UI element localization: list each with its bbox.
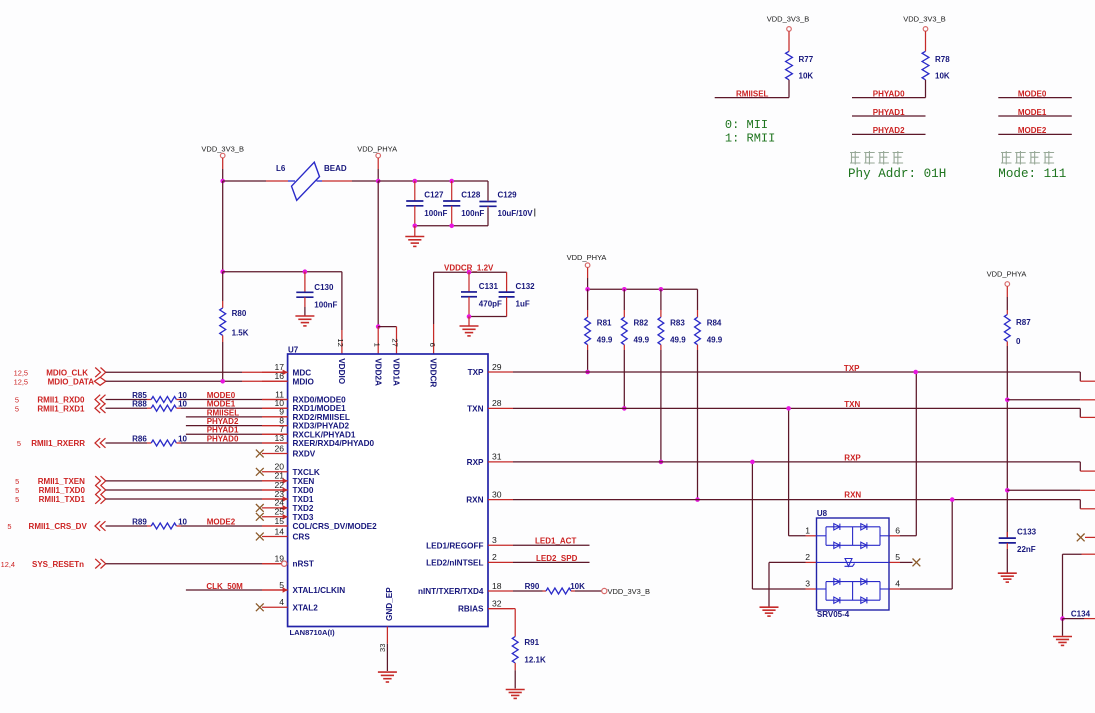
svg-text:RXD1/MODE1: RXD1/MODE1 — [293, 404, 347, 413]
port RMII1_CRS_DV (sheet 5) — [7, 521, 105, 531]
capacitor C134 (off-page) label/wire — [1063, 609, 1095, 618]
wire RMII1_TXEN to pin 21 — [106, 480, 288, 482]
svg-text:12: 12 — [336, 338, 345, 346]
annotation internal pullup / Mode: 111 — [998, 151, 1066, 181]
ground (C130) — [295, 307, 314, 326]
svg-text:RXDV: RXDV — [293, 450, 316, 459]
svg-text:RMII1_RXD0: RMII1_RXD0 — [37, 396, 85, 405]
node C131 bottom — [467, 314, 472, 319]
svg-text:RXER/RXD4/PHYAD0: RXER/RXD4/PHYAD0 — [293, 439, 375, 448]
wire VDD_PHYA vertical to VDD2A/VDD1A — [377, 181, 379, 327]
wire VDD_3V3_B vertical down — [222, 181, 224, 272]
svg-text:49.9: 49.9 — [707, 336, 723, 345]
svg-text:XTAL2: XTAL2 — [293, 603, 319, 612]
net label MODE0 / wire to pin 11 — [181, 391, 288, 400]
svg-text:30: 30 — [492, 489, 502, 499]
svg-text:BEAD: BEAD — [324, 164, 347, 173]
net label MODE1 / wire to pin 10 — [181, 400, 288, 409]
pin 2 LED2/nINTSEL (right) — [426, 552, 513, 567]
node VDD_3V3_B / C130 rail — [220, 269, 225, 274]
node C127 top — [413, 179, 418, 184]
diodes U8 row 2 — [817, 536, 890, 549]
svg-text:RXD0/MODE0: RXD0/MODE0 — [293, 396, 347, 405]
pin 26 RXDV (left) — [256, 443, 316, 458]
wire U8 pin 4 to RXN — [889, 500, 952, 589]
svg-text:5: 5 — [17, 439, 21, 448]
node R81 to TXP — [585, 370, 590, 375]
wire VDD_PHYA termination bus — [588, 288, 698, 290]
wire RBIAS to R91 — [488, 609, 515, 637]
resistor R80 1.5K (MDIO pull-up) — [220, 272, 249, 382]
inductor L6 (ferrite BEAD) — [276, 162, 347, 200]
svg-text:MDC: MDC — [293, 368, 312, 377]
node TXN / U8 — [786, 406, 791, 411]
capacitor C129 10uF/10V — [479, 181, 534, 226]
node RXN / U8 — [950, 497, 955, 502]
svg-text:10: 10 — [178, 391, 187, 400]
svg-text:1uF: 1uF — [516, 299, 530, 308]
net label MODE1 / wire stub — [998, 108, 1072, 117]
svg-text:1: 1 — [372, 343, 381, 347]
svg-text:R88: R88 — [132, 400, 147, 409]
svg-text:Mode: 111: Mode: 111 — [998, 167, 1066, 181]
port RMII1_RXD1 (sheet 5) — [15, 403, 106, 413]
svg-text:U8: U8 — [817, 509, 828, 518]
net label RMIISEL / wire to pin 9 — [186, 408, 288, 417]
node C128 bottom — [449, 224, 454, 229]
svg-text:R90: R90 — [525, 582, 540, 591]
svg-text:5: 5 — [15, 477, 19, 486]
svg-text:26: 26 — [274, 443, 284, 453]
svg-text:VDD2A: VDD2A — [373, 358, 382, 386]
svg-text:RXN: RXN — [844, 490, 861, 499]
svg-text:VDD_3V3_B: VDD_3V3_B — [903, 15, 946, 24]
wire RMII1_CRS_DV to R89 — [106, 525, 152, 527]
ground (C133) — [998, 573, 1017, 582]
diodes U8 row 1 — [826, 524, 880, 546]
port RMII1_RXERR (sheet 5) — [17, 438, 106, 448]
pin 28 TXN (right) — [467, 398, 513, 413]
svg-text:100nF: 100nF — [314, 301, 337, 310]
svg-text:XTAL1/CLKIN: XTAL1/CLKIN — [293, 586, 346, 595]
svg-text:1: 1 — [805, 526, 810, 536]
pin 4 XTAL2 (left) — [256, 597, 318, 612]
wire C131/C132 bottom bus — [469, 316, 507, 318]
node TX center tap — [1005, 398, 1010, 403]
svg-text:RMII1_RXERR: RMII1_RXERR — [31, 439, 85, 448]
svg-text:MODE2: MODE2 — [207, 517, 236, 526]
node bus R81 — [585, 287, 590, 292]
svg-text:RMII1_TXEN: RMII1_TXEN — [38, 477, 85, 486]
svg-text:RMII1_RXD1: RMII1_RXD1 — [37, 404, 85, 413]
capacitor C131 470pF — [461, 272, 502, 316]
svg-text:3: 3 — [805, 579, 810, 589]
svg-text:TXEN: TXEN — [293, 477, 315, 486]
svg-text:5: 5 — [7, 522, 11, 531]
node RX center tap — [1005, 488, 1010, 493]
node C134 — [1060, 616, 1065, 621]
ground (C134) — [1053, 619, 1072, 646]
svg-text:C127: C127 — [424, 190, 444, 199]
svg-text:RMIISEL: RMIISEL — [207, 408, 240, 417]
power terminal VDD_3V3_B (R90) — [602, 587, 650, 596]
svg-text:TXP: TXP — [468, 368, 484, 377]
svg-text:49.9: 49.9 — [597, 336, 613, 345]
svg-text:28: 28 — [492, 398, 502, 408]
net label RMIISEL / wire stub — [715, 89, 789, 98]
svg-text:PHYAD1: PHYAD1 — [207, 426, 239, 435]
wire VDD_3V3_B rail to L6 — [223, 180, 288, 182]
node C131 top — [467, 270, 472, 275]
pin stub VDDCR pin 6 — [433, 272, 435, 354]
svg-text:RMII1_TXD1: RMII1_TXD1 — [39, 495, 86, 504]
pin 3 LED1/REGOFF (right) — [426, 535, 513, 550]
svg-text:12,4: 12,4 — [1, 560, 15, 569]
pin 27 VDD1A (top) — [391, 338, 401, 386]
svg-text:0: MII: 0: MII — [725, 118, 768, 132]
svg-text:12.1K: 12.1K — [524, 656, 546, 665]
svg-text:49.9: 49.9 — [670, 336, 686, 345]
svg-text:VDD_PHYA: VDD_PHYA — [987, 269, 1027, 278]
svg-text:C128: C128 — [461, 190, 481, 199]
svg-text:12,5: 12,5 — [14, 368, 28, 377]
svg-text:VDDIO: VDDIO — [337, 358, 346, 385]
net label PHYAD0 / wire stub — [852, 89, 926, 98]
pin 1 VDD2A (top) — [372, 343, 382, 386]
wire TXP net — [513, 364, 1095, 381]
svg-text:VDDCR: VDDCR — [429, 358, 438, 387]
svg-text:RXP: RXP — [844, 453, 861, 462]
svg-text:TXD1: TXD1 — [293, 495, 314, 504]
no-connect U8 pin 5 — [889, 559, 920, 567]
svg-text:RMII1_TXD0: RMII1_TXD0 — [39, 486, 86, 495]
pin 7 RXCLK/PHYAD1 (left) — [262, 424, 356, 439]
ground (GND_EP pin 33) — [378, 672, 397, 682]
svg-text:15: 15 — [274, 516, 284, 526]
port SYS_RESETn (sheet 12,4) — [1, 559, 106, 569]
svg-text:14: 14 — [274, 526, 284, 536]
svg-text:R91: R91 — [524, 638, 539, 647]
svg-text:RXCLK/PHYAD1: RXCLK/PHYAD1 — [293, 430, 356, 439]
svg-text:470pF: 470pF — [479, 299, 502, 308]
svg-text:RMII1_CRS_DV: RMII1_CRS_DV — [29, 522, 88, 531]
node R83 to RXP — [659, 460, 664, 465]
port RMII1_TXD1 (sheet 5) — [15, 494, 106, 504]
wire R87 center-tap vertical — [1006, 346, 1008, 538]
svg-text:100nF: 100nF — [424, 209, 447, 218]
power symbol VDD_PHYA (right) — [987, 269, 1027, 310]
svg-text:TXD2: TXD2 — [293, 504, 314, 513]
svg-text:SRV05-4: SRV05-4 — [817, 610, 850, 619]
svg-text:22nF: 22nF — [1017, 545, 1036, 554]
capacitor C127 100nF — [406, 181, 447, 226]
pin 14 CRS (left) — [256, 526, 310, 541]
svg-text:LED1_ACT: LED1_ACT — [535, 537, 576, 546]
resistor R85 10 — [132, 391, 187, 403]
svg-text:TXN: TXN — [844, 400, 860, 409]
wire RXN net — [513, 490, 1095, 508]
node MDIO_DATA / R80 — [220, 379, 225, 384]
zener diode U8 (TVS) — [817, 559, 890, 567]
pin 29 TXP (right) — [468, 362, 513, 377]
pin 9 RXD2/RMIISEL (left) — [262, 407, 350, 422]
pin 8 RXD3/PHYAD2 (left) — [262, 415, 350, 430]
svg-text:VDD1A: VDD1A — [392, 358, 401, 386]
svg-text:10: 10 — [178, 517, 187, 526]
resistor R91 12.1K — [512, 637, 546, 689]
svg-text:49.9: 49.9 — [634, 336, 650, 345]
resistor R78 10K — [922, 51, 950, 97]
pin stub VDD1A pin 27 — [378, 327, 396, 354]
svg-text:nINT/TXER/TXD4: nINT/TXER/TXD4 — [418, 587, 484, 596]
pin 13 RXER/RXD4/PHYAD0 (left) — [262, 433, 375, 448]
svg-text:TXD0: TXD0 — [293, 486, 314, 495]
wire VDD_PHYA rail to decoupling caps — [378, 180, 488, 182]
resistor R86 10 — [132, 434, 187, 446]
no-connect stub (right edge) — [1077, 534, 1095, 542]
svg-text:VDD_3V3_B: VDD_3V3_B — [767, 15, 810, 24]
wire RMII1_RXD1 to R88 — [106, 407, 152, 409]
svg-text:C130: C130 — [314, 283, 334, 292]
svg-text:5: 5 — [15, 495, 19, 504]
net label LED1_ACT / wire — [513, 537, 590, 546]
svg-text:SYS_RESETn: SYS_RESETn — [32, 560, 84, 569]
svg-text:33: 33 — [378, 644, 387, 652]
wire RMII1_TXD0 to pin 22 — [106, 489, 288, 491]
svg-text:31: 31 — [492, 452, 502, 462]
resistor R87 0 — [1004, 310, 1031, 346]
wire SYS_RESETn to pin 19 — [106, 563, 282, 565]
pin 18 nINT/TXER/TXD4 (right) — [418, 581, 513, 596]
svg-text:29: 29 — [492, 362, 502, 372]
pin 33 GND_EP (bottom) — [378, 587, 394, 671]
svg-text:6: 6 — [428, 343, 437, 347]
svg-text:RXD3/PHYAD2: RXD3/PHYAD2 — [293, 422, 350, 431]
svg-text:CRS: CRS — [293, 533, 311, 542]
ground (C131/C132) — [460, 317, 479, 336]
svg-text:L6: L6 — [276, 164, 286, 173]
resistor R77 10K — [786, 51, 814, 97]
diodes U8 row 4 — [817, 589, 890, 603]
node VDD_3V3_B junction — [220, 179, 225, 184]
power symbol VDD_3V3_B (top left) — [201, 145, 244, 181]
node C127 bottom — [413, 224, 418, 229]
svg-text:PHYAD2: PHYAD2 — [207, 417, 239, 426]
svg-text:TXP: TXP — [844, 364, 860, 373]
svg-text:PHYAD0: PHYAD0 — [207, 434, 239, 443]
node C130 top — [303, 269, 308, 274]
svg-text:Phy Addr: 01H: Phy Addr: 01H — [848, 167, 946, 181]
pin 22 TXD0 (left) — [262, 480, 314, 495]
svg-text:R87: R87 — [1016, 318, 1031, 327]
wire VDDCR rail — [434, 271, 507, 273]
svg-text:RXN: RXN — [466, 496, 483, 505]
svg-text:VDD_PHYA: VDD_PHYA — [567, 253, 607, 262]
svg-text:32: 32 — [492, 598, 502, 608]
net label PHYAD2 / wire to pin 8 — [186, 417, 288, 426]
wire RXP net — [513, 453, 1095, 471]
resistor R84 49.9 — [695, 289, 723, 499]
svg-text:R82: R82 — [634, 318, 649, 327]
resistor R81 49.9 — [585, 289, 613, 372]
resistor R88 10 — [132, 400, 187, 412]
wire L6 to VDD_PHYA rail — [322, 180, 378, 182]
net label PHYAD1 / wire stub — [852, 108, 926, 117]
wire decoupling caps bottom bus — [415, 225, 488, 227]
wire TXN net — [513, 400, 1095, 418]
annotation internal pulldown / Phy Addr: 01H — [848, 151, 946, 181]
svg-text:C132: C132 — [516, 282, 536, 291]
svg-text:6: 6 — [895, 526, 900, 536]
svg-text:MDIO_CLK: MDIO_CLK — [46, 368, 88, 377]
annotation 0: MII / 1: RMII — [725, 118, 775, 145]
svg-text:RBIAS: RBIAS — [458, 605, 484, 614]
node bus R82 — [622, 287, 627, 292]
power symbol VDD_3V3_B (R77) — [767, 15, 810, 52]
pin 17 MDC (left) — [262, 362, 311, 377]
net label VDDCR_1.2V — [444, 263, 494, 272]
svg-text:VDD_PHYA: VDD_PHYA — [357, 145, 397, 154]
svg-text:RXD2/RMIISEL: RXD2/RMIISEL — [293, 413, 350, 422]
svg-text:10uF/10V: 10uF/10V — [498, 209, 534, 218]
svg-text:TXN: TXN — [467, 404, 483, 413]
resistor R89 10 — [132, 517, 187, 529]
node RXP / U8 — [750, 460, 755, 465]
svg-text:C133: C133 — [1017, 528, 1037, 537]
svg-text:5: 5 — [15, 396, 19, 405]
svg-text:R77: R77 — [799, 55, 814, 64]
capacitor C132 1uF — [499, 272, 536, 316]
ground (U8 pin 2) — [760, 607, 779, 616]
svg-text:10K: 10K — [799, 72, 814, 81]
capacitor C130 100nF — [296, 272, 337, 310]
ground (R91) — [506, 690, 525, 699]
pin 24 TXD2 (left) — [256, 498, 314, 513]
pin 10 RXD1/MODE1 (left) — [262, 398, 346, 413]
resistor R83 49.9 — [658, 289, 686, 462]
pin stub VDD2A pin 1 — [377, 327, 379, 354]
power symbol VDD_PHYA (top) — [357, 145, 397, 181]
svg-text:R89: R89 — [132, 517, 147, 526]
net label PHYAD0 / wire to pin 13 — [181, 434, 288, 443]
net label MODE2 / wire to pin 15 — [181, 517, 288, 526]
svg-text:R84: R84 — [707, 318, 722, 327]
svg-text:LAN8710A(I): LAN8710A(I) — [290, 628, 336, 637]
pin 15 COL/CRS_DV/MODE2 (left) — [262, 516, 377, 531]
wire rail to VDDIO pin 12 — [223, 272, 342, 354]
resistor R90 10K — [513, 582, 602, 594]
svg-text:MDIO: MDIO — [293, 377, 315, 386]
svg-text:2: 2 — [805, 552, 810, 562]
svg-text:R83: R83 — [670, 318, 685, 327]
transistor-array U8 SRV05-4 body — [817, 509, 890, 619]
port RMII1_RXD0 (sheet 5) — [15, 395, 106, 405]
resistor R82 49.9 — [621, 289, 649, 408]
node R84 to RXN — [695, 497, 700, 502]
wire shield stub from edge — [1063, 554, 1095, 618]
svg-text:U7: U7 — [288, 345, 299, 354]
svg-text:GND_EP: GND_EP — [385, 587, 394, 621]
svg-text:5: 5 — [15, 404, 19, 413]
net label MODE2 / wire stub — [998, 126, 1072, 135]
node VDD_PHYA junction — [376, 179, 381, 184]
svg-text:LED2_SPD: LED2_SPD — [536, 554, 578, 563]
pin 25 TXD3 (left) — [256, 507, 314, 522]
port RMII1_TXD0 (sheet 5) — [15, 485, 106, 495]
svg-text:0: 0 — [1016, 337, 1021, 346]
net label MODE0 / wire stub — [998, 89, 1072, 98]
svg-text:COL/CRS_DV/MODE2: COL/CRS_DV/MODE2 — [293, 522, 378, 531]
svg-text:1.5K: 1.5K — [232, 328, 249, 337]
pin 16 MDIO (left) — [262, 371, 315, 386]
pin 5 XTAL1/CLKIN (left) — [262, 580, 345, 595]
wire U8 pin 2 to ground — [769, 562, 817, 606]
wire RMII1_RXD0 to R85 — [106, 399, 152, 401]
svg-text:10: 10 — [178, 434, 187, 443]
diodes U8 row 3 — [826, 578, 880, 600]
svg-text:LED1/REGOFF: LED1/REGOFF — [426, 541, 483, 550]
pin 6 VDDCR (top) — [428, 343, 438, 388]
pin 20 TXCLK (left) — [256, 462, 320, 477]
svg-text:1: RMII: 1: RMII — [725, 131, 775, 145]
svg-text:R80: R80 — [232, 309, 247, 318]
net label PHYAD2 / wire stub — [852, 126, 926, 135]
svg-text:4: 4 — [895, 579, 900, 589]
svg-text:RXP: RXP — [467, 458, 484, 467]
svg-text:4: 4 — [279, 597, 284, 607]
pin 23 TXD1 (left) — [262, 489, 314, 504]
svg-text:12,5: 12,5 — [14, 377, 28, 386]
pin 31 RXP (right) — [467, 452, 513, 467]
wire RXP to U8 pin 3 — [752, 462, 816, 589]
node C128 top — [449, 179, 454, 184]
svg-text:nRST: nRST — [293, 560, 314, 569]
svg-text:C131: C131 — [479, 282, 499, 291]
pin numbers U8 — [805, 526, 900, 589]
port MDIO_CLK (sheet 12,5) — [14, 368, 106, 378]
svg-text:100nF: 100nF — [461, 209, 484, 218]
svg-text:MODE0: MODE0 — [207, 391, 236, 400]
svg-text:10K: 10K — [935, 72, 950, 81]
svg-text:R85: R85 — [132, 391, 147, 400]
wire MDIO_CLK to pin 17 — [106, 371, 288, 373]
node VDD2A/VDD1A split — [376, 324, 381, 329]
svg-text:C134: C134 — [1071, 609, 1091, 618]
power symbol VDD_PHYA (termination) — [567, 253, 607, 289]
svg-text:VDD_3V3_B: VDD_3V3_B — [608, 587, 651, 596]
node TXP / U8 — [913, 370, 918, 375]
svg-text:R78: R78 — [935, 55, 950, 64]
pin 11 RXD0/MODE0 (left) — [262, 389, 346, 404]
svg-text:R86: R86 — [132, 434, 147, 443]
port RMII1_TXEN (sheet 5) — [15, 476, 106, 486]
svg-text:MDIO_DATA: MDIO_DATA — [48, 377, 95, 386]
svg-text:27: 27 — [391, 338, 400, 346]
svg-text:5: 5 — [15, 486, 19, 495]
svg-text:LED2/nINTSEL: LED2/nINTSEL — [426, 558, 483, 567]
node R82 to TXN — [622, 406, 627, 411]
svg-text:VDD_3V3_B: VDD_3V3_B — [201, 145, 244, 154]
pin 21 TXEN (left) — [262, 471, 314, 486]
power symbol VDD_3V3_B (R78) — [903, 15, 946, 52]
wire RMII1_RXERR to R86 — [106, 442, 152, 444]
wire RMII1_TXD1 to pin 23 — [106, 498, 288, 500]
net label CLK_50M / wire to pin 5 — [186, 582, 288, 591]
svg-text:TXD3: TXD3 — [293, 513, 314, 522]
op-amp U7 LAN8710A(I) PHY IC body — [288, 345, 488, 637]
svg-text:10: 10 — [178, 400, 187, 409]
svg-text:MODE1: MODE1 — [207, 400, 236, 409]
